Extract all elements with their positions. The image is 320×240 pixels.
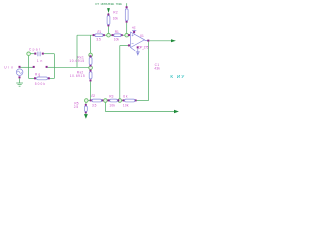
wire left riser [28, 54, 30, 79]
svg-text:6k: 6k [123, 94, 128, 98]
svg-text:10k: 10k [114, 37, 120, 41]
wire right riser [53, 54, 55, 79]
svg-text:К ИУ: К ИУ [170, 74, 184, 79]
svg-text:3.5: 3.5 [92, 103, 97, 107]
svg-text:Л2: Л2 [91, 94, 95, 98]
arrow bottom rail right [174, 110, 179, 113]
svg-text:10.6915: 10.6915 [69, 59, 84, 63]
svg-text:3.5: 3.5 [96, 37, 101, 41]
wire top row [77, 34, 94, 36]
svg-text:2.5: 2.5 [74, 105, 79, 109]
svg-text:10k: 10k [123, 103, 129, 107]
svg-text:Cpar: Cpar [29, 48, 41, 52]
wire main row right [54, 66, 90, 68]
svg-text:43k: 43k [154, 66, 160, 70]
wire feedback column [148, 42, 150, 101]
wire op-amp output [150, 40, 172, 42]
voltage source Uin [16, 69, 23, 76]
resistor Rk1 vertical [90, 55, 92, 57]
svg-text:+E: +E [132, 26, 136, 30]
resistor #2 bottom row [90, 99, 92, 101]
resistor #1 top row [93, 34, 95, 36]
wire cap branch [29, 53, 36, 55]
wire bottom row segments [102, 100, 106, 102]
svg-text:Rg: Rg [35, 72, 40, 76]
wire middle branch stubs [29, 66, 34, 68]
wire Rk2 to bottom row [90, 82, 92, 101]
resistor R5 vertical bottom-left [85, 104, 87, 106]
svg-text:ИСТОЧНИКА: ИСТОЧНИКА [101, 2, 116, 6]
svg-text:R2: R2 [113, 10, 118, 14]
resistor second vertical at op input column [126, 6, 128, 8]
svg-text:Uin: Uin [4, 65, 13, 69]
capacitor Cpar [34, 53, 36, 55]
arrow output right [171, 39, 176, 42]
node circle main row bridge [89, 66, 93, 70]
svg-text:10k: 10k [113, 17, 119, 21]
resistor R2 vertical top [107, 14, 109, 16]
wire bridge column top [90, 35, 92, 55]
resistor R1 [112, 34, 114, 36]
wire second R column above op input [126, 3, 128, 6]
svg-text:R1: R1 [115, 30, 119, 34]
resistor third bottom row [122, 99, 124, 101]
wire riser to op+ input [119, 46, 121, 101]
node circle E at op input [125, 33, 129, 37]
svg-text:10k: 10k [109, 103, 115, 107]
middle component pins (invisible body) [33, 66, 35, 68]
wire T column [76, 35, 78, 67]
wire v-resistor bottom-left [85, 101, 87, 105]
svg-text:ТОКА: ТОКА [116, 2, 123, 6]
ground [16, 82, 23, 84]
resistor R3 bottom row [108, 99, 110, 101]
node circle block top-left [27, 52, 31, 56]
op-amp output lead [145, 39, 148, 41]
svg-text:500k: 500k [35, 82, 46, 86]
-E supply [131, 48, 136, 51]
wire Uin to left riser [20, 66, 29, 68]
svg-text:R3: R3 [109, 94, 113, 98]
node circle A bottom-left [85, 99, 89, 103]
resistor Rk2 vertical [90, 70, 92, 72]
+E supply [133, 30, 135, 31]
svg-text:Л1: Л1 [97, 30, 101, 34]
svg-text:ОТ: ОТ [95, 2, 99, 6]
wire Uin bottom to ground [19, 78, 21, 83]
wire Rk1 bottom to row [90, 66, 92, 68]
svg-text:X1: X1 [140, 34, 144, 38]
node dot D top row [107, 33, 111, 37]
node circle Rk1 top [89, 53, 93, 57]
wire bottom row stub left [86, 100, 91, 102]
wire Rg branch [29, 77, 35, 79]
resistor Rg [34, 77, 36, 79]
wire R2 column [108, 13, 110, 15]
node circle C bottom riser [118, 99, 122, 103]
svg-text:OP_275: OP_275 [138, 46, 149, 50]
op-amp X1 [128, 34, 130, 36]
wire stub B + bottom rail [104, 101, 106, 112]
svg-text:1n: 1n [37, 59, 43, 63]
wire op bottom input [120, 45, 129, 47]
arrow current in top, pointing down [107, 8, 110, 13]
svg-text:10.6915: 10.6915 [70, 74, 85, 78]
arrow current out bottom-left, pointing down [84, 114, 88, 119]
node dot B bottom row [104, 99, 108, 103]
